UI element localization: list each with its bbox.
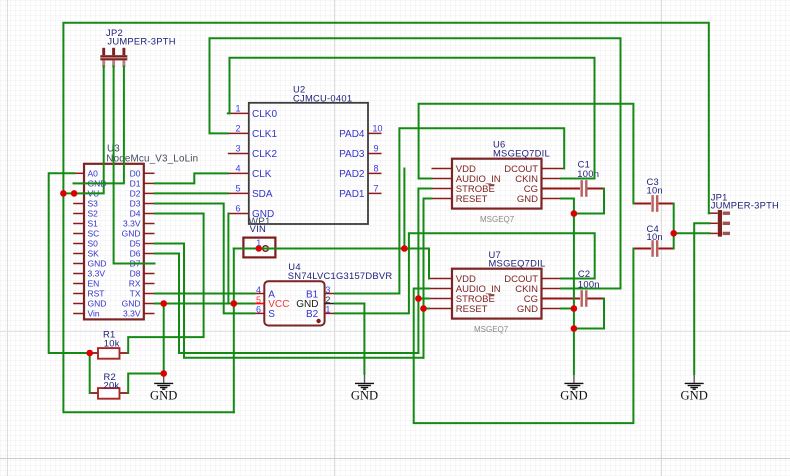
wire net U6.DCOUT to U4.B1 xyxy=(335,128,564,293)
svg-text:Vin: Vin xyxy=(88,309,100,319)
resistor R1 stubs xyxy=(90,352,98,354)
svg-text:PAD1: PAD1 xyxy=(339,189,365,200)
svg-text:GND: GND xyxy=(517,304,538,315)
wire net GND loop: top/left/bottom rail xyxy=(63,23,708,412)
svg-text:7: 7 xyxy=(374,183,379,193)
WP1 pin circle xyxy=(263,246,269,252)
svg-text:CLK: CLK xyxy=(252,169,272,180)
svg-text:GND: GND xyxy=(150,389,177,403)
svg-text:D6: D6 xyxy=(130,249,141,259)
svg-text:GND: GND xyxy=(296,299,318,310)
svg-text:GND: GND xyxy=(681,389,708,403)
svg-text:100n: 100n xyxy=(577,168,599,179)
svg-text:EN: EN xyxy=(88,279,100,289)
JP2 pin nubs (top) xyxy=(104,48,124,55)
svg-text:SC: SC xyxy=(88,229,100,239)
svg-text:6: 6 xyxy=(235,204,240,214)
svg-text:D0: D0 xyxy=(130,168,141,178)
svg-text:S: S xyxy=(268,309,275,320)
svg-text:B2: B2 xyxy=(306,309,319,320)
wire JP1 pin1 connect xyxy=(708,212,711,214)
wire U7 audio in to C4 xyxy=(414,249,634,424)
wire VIN row xyxy=(234,249,429,279)
U7 left pin stubs xyxy=(429,279,452,309)
svg-text:CLK2: CLK2 xyxy=(252,149,277,160)
jumper JP1 bar xyxy=(718,210,722,237)
capacitor C3 plates xyxy=(651,195,653,212)
ground symbol 3 (U6/U7 GND) xyxy=(560,374,587,403)
U7 right pin stubs xyxy=(542,279,563,309)
svg-text:8: 8 xyxy=(374,163,379,173)
wire VIN column down to bottom rail xyxy=(233,249,235,413)
svg-text:D2: D2 xyxy=(130,188,141,198)
svg-text:S1: S1 xyxy=(88,219,99,229)
svg-text:S3: S3 xyxy=(88,199,99,209)
wire A0 to R1 xyxy=(49,173,90,353)
wire RESET column up to U6.RESET xyxy=(424,199,432,358)
wire U2.GND column xyxy=(227,214,229,304)
svg-text:SK: SK xyxy=(88,249,100,259)
svg-text:3.3V: 3.3V xyxy=(123,219,141,229)
svg-text:3.3V: 3.3V xyxy=(88,269,106,279)
svg-text:PAD3: PAD3 xyxy=(339,149,365,160)
analog switch U4 box xyxy=(264,281,324,325)
svg-text:4: 4 xyxy=(235,163,240,173)
svg-text:GND: GND xyxy=(88,259,107,269)
svg-text:TX: TX xyxy=(130,289,141,299)
svg-text:5: 5 xyxy=(256,295,261,305)
svg-text:1: 1 xyxy=(325,305,330,315)
svg-text:PAD2: PAD2 xyxy=(339,169,365,180)
msgeq7 U7 box xyxy=(452,269,542,319)
msgeq7 U6 box xyxy=(452,159,542,209)
svg-text:RX: RX xyxy=(129,279,141,289)
wire C3/C4 to JP1 pin3 xyxy=(673,204,675,249)
svg-text:D4: D4 xyxy=(130,209,141,219)
U4 right pin stubs xyxy=(325,293,335,295)
U7 STROBE overline xyxy=(488,294,494,296)
wire U4.GND to ground symbol xyxy=(335,304,365,374)
svg-text:MSGEQ7DIL: MSGEQ7DIL xyxy=(489,257,546,268)
capacitor C4 plates xyxy=(651,240,653,257)
U2 right pin stubs xyxy=(368,133,382,193)
ground symbol 4 (JP1 GND) xyxy=(681,374,708,403)
U4 corner dot xyxy=(316,319,320,323)
svg-text:SDA: SDA xyxy=(252,189,273,200)
wire D2 to U2.SDA xyxy=(155,192,228,194)
svg-text:D8: D8 xyxy=(130,269,141,279)
svg-text:3: 3 xyxy=(325,285,330,295)
svg-text:NodeMcu_V3_LoLin: NodeMcu_V3_LoLin xyxy=(106,154,198,165)
jumper JP2 bar xyxy=(100,55,127,60)
wire U6.GND to ground column xyxy=(561,199,574,375)
svg-text:5: 5 xyxy=(235,183,240,193)
svg-text:D3: D3 xyxy=(130,199,141,209)
U3 left pin names xyxy=(88,168,107,318)
wire U3.GND(r) to U4.VCC xyxy=(155,303,255,305)
resistor R2 stubs xyxy=(90,392,98,394)
U6 pin names xyxy=(456,164,501,205)
svg-text:S0: S0 xyxy=(88,239,99,249)
svg-text:GND: GND xyxy=(122,229,141,239)
U2 pin names xyxy=(252,109,277,220)
svg-text:2: 2 xyxy=(235,123,240,133)
svg-text:2: 2 xyxy=(325,295,330,305)
wire U6.VDD column to VIN xyxy=(403,169,405,249)
svg-text:GND: GND xyxy=(122,299,141,309)
wire VU to JP2 pin1 xyxy=(63,67,103,194)
svg-text:CLK0: CLK0 xyxy=(252,109,277,120)
svg-text:JUMPER-3PTH: JUMPER-3PTH xyxy=(107,36,175,47)
wire TX to U4.A xyxy=(155,293,255,295)
svg-text:3: 3 xyxy=(235,144,240,154)
U4 pin numbers xyxy=(256,285,261,314)
svg-text:10k: 10k xyxy=(104,337,120,348)
svg-text:GND: GND xyxy=(351,389,378,403)
cjmcu U2 box xyxy=(249,103,368,224)
svg-text:10n: 10n xyxy=(647,231,663,242)
wire D5 to RESET column xyxy=(155,244,424,358)
wire U7.RESET branch xyxy=(424,308,430,310)
svg-text:4: 4 xyxy=(256,285,261,295)
wire U7.DCOUT to U4.B2 xyxy=(335,233,595,313)
svg-text:PAD4: PAD4 xyxy=(339,129,365,140)
svg-text:GND: GND xyxy=(88,299,107,309)
wire R1 dot down to R2 left xyxy=(89,353,91,393)
nodemcu U3 box xyxy=(84,164,144,320)
wire U3.GND(l) to JP2 pin3 xyxy=(74,67,124,184)
wirepad WP1 box xyxy=(243,238,275,258)
wire C2 right to ground column xyxy=(574,299,604,329)
capacitor C2 stubs xyxy=(542,298,581,300)
JP1 pin nubs (right) xyxy=(723,213,730,233)
wire D3 to U4.S xyxy=(155,204,255,314)
U4 VCC pin stub (power, red) xyxy=(254,303,264,305)
wire net CLK0 to U6.CKIN (wire C) xyxy=(228,58,595,179)
wire R2 right to GND dot xyxy=(128,374,164,394)
U3 right pin names xyxy=(122,168,141,318)
wire D6 to STROBE column xyxy=(155,254,419,354)
WP1 pin point dot xyxy=(256,245,262,251)
resistor R2 body xyxy=(98,388,120,399)
wire JP2 pin2 to D7 xyxy=(114,67,155,264)
capacitor C1 stubs xyxy=(542,188,581,190)
wire U7.GND to ground column xyxy=(561,308,574,310)
svg-text:6: 6 xyxy=(256,305,261,315)
wire net CLK1 to U7.CKIN (wire B) xyxy=(210,38,621,288)
svg-text:RESET: RESET xyxy=(456,304,488,315)
svg-text:SN74LVC1G3157DBVR: SN74LVC1G3157DBVR xyxy=(288,270,393,281)
svg-text:GND: GND xyxy=(517,194,538,205)
wire C1 right to ground column xyxy=(574,189,604,214)
wire net U6 audio in from C3 xyxy=(419,104,634,204)
svg-text:JUMPER-3PTH: JUMPER-3PTH xyxy=(711,200,779,211)
svg-text:GND: GND xyxy=(560,389,587,403)
svg-text:CLK1: CLK1 xyxy=(252,129,277,140)
capacitor C1 plates xyxy=(581,180,583,197)
svg-text:D5: D5 xyxy=(130,239,141,249)
wire D4 to R1 right xyxy=(128,214,203,354)
svg-text:VIN: VIN xyxy=(250,223,266,234)
wire GND column to R2/GND symbol xyxy=(163,304,165,374)
svg-text:A0: A0 xyxy=(88,168,99,178)
wire D1 to U2.CLK xyxy=(155,173,228,183)
ground symbol 1 (R2/U3 GND) xyxy=(150,374,177,403)
svg-text:1: 1 xyxy=(256,238,261,248)
svg-text:3.3V: 3.3V xyxy=(123,309,141,319)
wire STROBE column up to U6.STROBE xyxy=(418,189,431,354)
resistor R1 body xyxy=(98,348,120,359)
svg-text:RESET: RESET xyxy=(456,194,488,205)
JP1 pin lines (left) xyxy=(709,213,718,233)
U3 left pin stubs xyxy=(73,173,84,313)
capacitor C4 stubs xyxy=(633,248,651,250)
wire U7.STROBE branch xyxy=(418,298,429,300)
U4 left pin stubs xyxy=(254,293,264,295)
U2 left pin stubs xyxy=(228,113,249,213)
svg-text:MSGEQ7: MSGEQ7 xyxy=(480,215,515,224)
svg-text:9: 9 xyxy=(374,144,379,154)
U2 pin numbers xyxy=(235,103,240,213)
U3 right pin stubs xyxy=(144,173,155,313)
svg-text:1: 1 xyxy=(235,103,240,113)
svg-text:MSGEQ7DIL: MSGEQ7DIL xyxy=(493,147,550,158)
U6 left pin stubs xyxy=(432,169,453,199)
svg-text:C2: C2 xyxy=(578,268,590,279)
ground symbol 2 (U4 GND) xyxy=(351,374,378,403)
svg-text:MSGEQ7: MSGEQ7 xyxy=(474,325,509,334)
svg-text:RST: RST xyxy=(88,289,105,299)
capacitor C3 stubs xyxy=(633,203,651,205)
wire U6.CKIN stub join xyxy=(561,178,595,180)
svg-text:S2: S2 xyxy=(88,209,99,219)
JP2 pin stubs (bottom) xyxy=(104,60,124,67)
svg-text:D1: D1 xyxy=(130,178,141,188)
svg-text:20k: 20k xyxy=(104,380,120,391)
svg-text:CJMCU-0401: CJMCU-0401 xyxy=(293,92,352,103)
U7 pin names xyxy=(456,274,501,315)
svg-text:10n: 10n xyxy=(647,185,663,196)
svg-text:10: 10 xyxy=(373,123,383,133)
U4 GND pin stub (black) xyxy=(325,303,335,305)
wire JP1 pin2 to GND xyxy=(694,223,709,374)
capacitor C2 plates xyxy=(581,290,583,307)
U6 STROBE overline xyxy=(488,184,494,186)
U6 right pin stubs xyxy=(542,169,565,199)
